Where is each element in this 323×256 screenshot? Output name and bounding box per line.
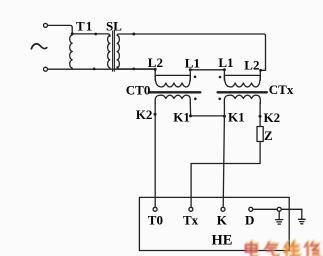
- svg-text:L2: L2: [148, 55, 163, 70]
- node dot CTx L2 corner: [259, 69, 262, 72]
- transformer SL core line left: [112, 31, 114, 71]
- terminal earth inside box: [277, 207, 281, 211]
- svg-text:L1: L1: [218, 55, 233, 70]
- svg-text:K2: K2: [264, 110, 281, 125]
- transformer SL core line right: [113, 31, 115, 71]
- CTx core bar: [218, 91, 267, 93]
- transformer SL secondary winding: [117, 35, 119, 68]
- svg-text:K1: K1: [228, 110, 245, 125]
- node dot CT0 K2: [154, 113, 157, 116]
- node junction dot SL secondary top: [132, 33, 135, 36]
- ground symbol outside box: [299, 209, 306, 224]
- HE box: [139, 197, 289, 250]
- svg-text:Tx: Tx: [183, 212, 199, 227]
- node dot L1 CT0: [189, 68, 192, 71]
- node junction dot on bottom primary wire: [93, 68, 96, 71]
- resistor Z: [257, 127, 263, 142]
- wire from Z down and left to Tx: [191, 142, 260, 208]
- AC source terminal bottom: [44, 67, 48, 71]
- wire top from T1 to SL primary: [72, 34, 110, 37]
- CT0 polarity dot top: [194, 76, 197, 79]
- wire D to earth terminals: [253, 208, 302, 210]
- svg-text:T0: T0: [148, 212, 163, 227]
- wire CT0 L1 riser: [189, 70, 191, 80]
- CT0 secondary winding: [155, 95, 190, 103]
- svg-text:T1: T1: [76, 19, 93, 34]
- CTx primary winding top line: [224, 74, 260, 76]
- svg-text:SL: SL: [106, 18, 122, 33]
- CTx polarity dot top: [219, 76, 222, 79]
- svg-text:Z: Z: [264, 128, 273, 143]
- wire K1 to K1: [191, 115, 225, 117]
- node dot CTx K1: [223, 115, 226, 118]
- node junction dot SL secondary bottom: [132, 68, 135, 71]
- ground symbol inside box: [276, 211, 283, 224]
- CT0 core bar: [149, 91, 200, 93]
- node dot CT0 K1: [189, 114, 192, 117]
- CT0 polarity dot bottom: [194, 98, 197, 101]
- svg-text:K2: K2: [136, 107, 153, 122]
- svg-text:K1: K1: [173, 110, 190, 125]
- node dot CTx K2: [259, 115, 262, 118]
- CTx secondary winding: [224, 95, 260, 103]
- CT0 primary winding top line: [155, 74, 190, 76]
- CTx polarity dot bottom: [218, 98, 221, 101]
- terminal T0: [153, 207, 157, 211]
- wire bottom lead from source through T1 to SL and CT0 L2: [48, 69, 156, 72]
- node junction dot on top primary wire: [94, 33, 97, 36]
- wire CTx K1 leg: [223, 103, 225, 116]
- node junction dot at CT0 L2 corner: [154, 68, 157, 71]
- wire SL secondary top long run to CTx: [117, 34, 265, 68]
- wire CT0 K1 leg: [189, 103, 191, 116]
- wire CT0 K2 drop to T0: [154, 103, 156, 207]
- svg-text:HE: HE: [212, 232, 233, 248]
- wire CTx L1 riser: [223, 70, 225, 80]
- svg-text:L1: L1: [185, 56, 200, 71]
- wire CTx L2 jog from top run: [260, 68, 265, 80]
- svg-text:CTx: CTx: [269, 82, 294, 97]
- CTx primary winding loops: [224, 75, 260, 87]
- wire SL secondary bottom to CT0: [117, 67, 153, 69]
- wire CT0 L2 riser: [154, 69, 156, 80]
- transformer SL primary winding: [108, 35, 110, 68]
- node junction dot at T1 top: [71, 32, 74, 35]
- terminal K: [221, 207, 225, 211]
- wire CTx K2 leg: [259, 103, 261, 127]
- wire K junction drop to K terminal: [223, 116, 224, 207]
- AC tilde symbol: [31, 44, 47, 49]
- terminal Tx: [189, 207, 193, 211]
- terminal D: [249, 207, 253, 211]
- CT0 primary winding loops: [155, 75, 190, 87]
- svg-text:K: K: [217, 212, 228, 227]
- wire top lead from source to T1: [48, 25, 73, 34]
- svg-text:L2: L2: [244, 58, 259, 73]
- node dot L1 CTx: [223, 68, 226, 71]
- transformer T1 winding: [70, 34, 72, 69]
- wire L1 to L1 between CT0 and CTx: [190, 69, 224, 71]
- svg-text:CT0: CT0: [126, 82, 151, 97]
- AC source terminal top: [44, 23, 48, 27]
- svg-text:D: D: [245, 212, 254, 227]
